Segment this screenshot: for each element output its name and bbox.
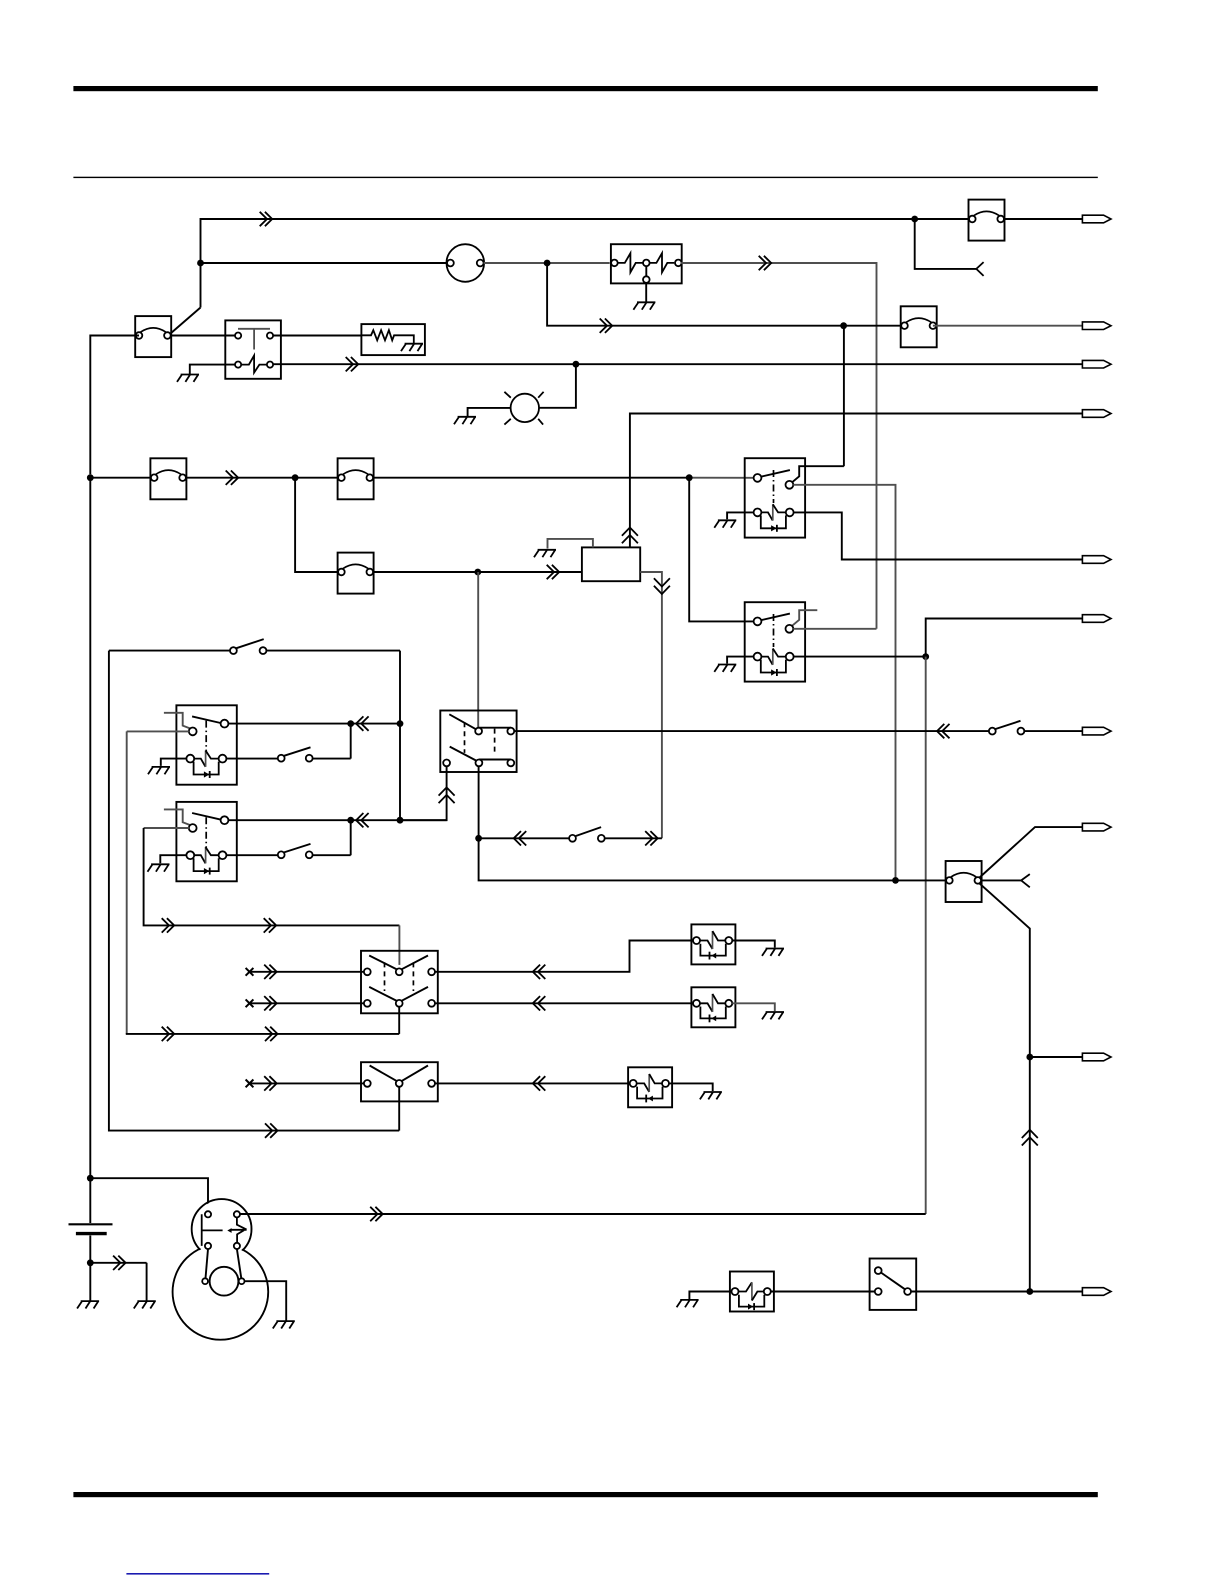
diagonal wire from fuse F1 to feed vertical bbox=[168, 308, 200, 336]
relay K2 dash-dot axis bbox=[773, 614, 775, 647]
wire: fuse F1 into circuit breaker CB1 bbox=[171, 335, 235, 337]
wire: SOL3 to ground bbox=[669, 1083, 713, 1091]
wire: loop inner vertical 1 (to light switch low beam) bbox=[126, 731, 128, 1034]
relay K1 contact circles bbox=[754, 474, 762, 482]
light switch S6 box bbox=[361, 951, 438, 1014]
terminal T5 bbox=[1082, 556, 1111, 564]
arrow on row1 out bbox=[533, 965, 546, 979]
arrow on CB1 output bbox=[346, 357, 359, 371]
indicator lamp L1 bbox=[504, 392, 543, 425]
circuit breaker CB1 bbox=[225, 320, 281, 378]
wire: head-beam drop into light switch bbox=[398, 925, 400, 965]
wire: light switch row2 out to solenoid SOL2 bbox=[435, 1002, 693, 1004]
arrow on PTO switch return bbox=[265, 1123, 278, 1137]
wire: left feed into fuse F1 bbox=[90, 336, 139, 475]
ground at frame bbox=[134, 1301, 156, 1308]
junction node lighting column ties ignition feed bbox=[892, 877, 899, 884]
relay K3 dash-dot axis bbox=[205, 721, 207, 751]
switch S4 bbox=[989, 721, 1024, 735]
solenoid SOL1 with diode bbox=[691, 924, 735, 964]
junction node T6 branch bbox=[922, 653, 929, 660]
ground at lamp bbox=[454, 417, 476, 424]
arrow on relay K3 out bbox=[356, 716, 369, 730]
wire: interlock ground lead bbox=[689, 1292, 731, 1300]
wire: CB1 to resistor block R2 bbox=[273, 335, 361, 337]
relay K3 hook contact with stub bbox=[164, 713, 190, 729]
seat switch contact circles bbox=[875, 1267, 882, 1274]
relay K3 coil with diode bbox=[186, 751, 226, 779]
fuse F6 bbox=[901, 306, 937, 347]
seat switch S8 box bbox=[870, 1259, 917, 1310]
relay K2 blade bbox=[761, 614, 790, 621]
wire: S1 drop to turn/hazard rows bbox=[399, 651, 401, 821]
resistor block R2 (resistor with ground) bbox=[361, 324, 425, 355]
junction node terminal T9 branch bbox=[1026, 1054, 1033, 1061]
ground at SOL3 bbox=[700, 1092, 722, 1099]
junction node relay K3 row bbox=[397, 720, 404, 727]
relay K4 contact circles bbox=[189, 824, 197, 832]
bottom thick rule bbox=[73, 1492, 1097, 1497]
x mark row 2 bbox=[246, 999, 254, 1007]
arrow on solenoid output bbox=[370, 1207, 383, 1221]
junction node turn-signal branch bbox=[474, 569, 481, 576]
wire: horn feed branch bbox=[201, 262, 447, 264]
wire: SOL1 to ground bbox=[732, 941, 775, 948]
light switch contact circles bbox=[364, 968, 371, 975]
wire: relay K2 switched to headlight feed bbox=[793, 628, 876, 630]
ground at relay K2 bbox=[714, 665, 736, 672]
wire: battery negative bbox=[89, 1236, 91, 1301]
junction node switch S2 branch bbox=[347, 720, 354, 727]
ground at relay K1 bbox=[714, 520, 736, 527]
junction node left main bbox=[87, 474, 94, 481]
wire: relay K4 input from loop bbox=[144, 827, 189, 829]
wire: lamp to ground bbox=[468, 408, 511, 417]
relay K1 blade bbox=[761, 470, 790, 477]
terminal T3 bbox=[1082, 360, 1111, 368]
wire: T6 column down to starter wire bbox=[925, 657, 927, 1214]
arrow on ground stub bbox=[113, 1256, 126, 1270]
horn B1 bbox=[447, 244, 485, 282]
switch S2 (momentary, relay K3 coil) bbox=[226, 724, 350, 759]
fuse F4 bbox=[338, 553, 374, 594]
top thick rule bbox=[73, 86, 1097, 91]
relay K4 dash-dot axis bbox=[205, 817, 207, 847]
ground below R1 bbox=[633, 302, 655, 309]
relay K2 hook contact with stub bbox=[792, 610, 817, 626]
wire: relay K2 coil to ground bbox=[727, 657, 754, 664]
wire: flasher case to ground bbox=[548, 539, 593, 549]
junction node relay K1 coil branch bbox=[840, 322, 847, 329]
x mark PTO bbox=[246, 1080, 254, 1088]
terminal T9 bbox=[1082, 1053, 1111, 1061]
turn switch dashed guides bbox=[464, 722, 466, 753]
solenoid SOL3 with diode bbox=[628, 1067, 672, 1107]
wire: main fuse row y=477.7 bbox=[90, 477, 689, 479]
wire: branch down to indicator lamp bbox=[539, 364, 576, 408]
arrow on T7 wire bbox=[937, 724, 950, 738]
wire: SOL4 to seat switch bbox=[771, 1291, 875, 1293]
ground at CB1 bbox=[177, 375, 199, 382]
battery BAT1 bbox=[69, 1224, 113, 1233]
junction node battery ground branch bbox=[87, 1259, 94, 1266]
wire: fuse row gray tail into relay K1 bbox=[689, 477, 753, 479]
turn signal switch U1 box bbox=[440, 711, 516, 773]
ground at interlock bbox=[677, 1300, 699, 1307]
arrow down on flasher right wire bbox=[654, 578, 670, 594]
fuse F5 bbox=[969, 200, 1005, 241]
terminal T10 bbox=[1082, 1288, 1111, 1296]
wire: armature to ground bbox=[245, 1281, 287, 1321]
wire: turn switch out to terminal T7 via switch S4 bbox=[514, 730, 1082, 732]
ground inside R2 bbox=[401, 344, 423, 351]
junction node relay K4 row bbox=[397, 817, 404, 824]
junction node hazard row branch bbox=[475, 835, 482, 842]
wire: battery ground stub to frame bbox=[90, 1263, 146, 1301]
bottom blue link underline bbox=[126, 1573, 269, 1575]
ground at battery bbox=[77, 1301, 99, 1308]
junction node horn branch bbox=[197, 260, 204, 267]
arrow on flasher feed bbox=[547, 565, 560, 579]
relay K3 box bbox=[176, 705, 236, 784]
wire: F7 diagonal up to terminal T8 bbox=[979, 827, 1082, 878]
wire: flasher junction down into turn switch common bbox=[477, 572, 479, 728]
wire: junction down to accessory row bbox=[547, 263, 900, 326]
junction node switch S3 branch bbox=[347, 817, 354, 824]
wire: R1 center tap to ground bbox=[645, 284, 647, 302]
wire: hazard row to flasher column bbox=[479, 837, 662, 839]
turn switch contact links bbox=[479, 727, 511, 729]
relay K4 blade bbox=[192, 813, 221, 820]
wire: main vertical to battery bbox=[89, 481, 91, 1223]
wire: fuse F6 to terminal T2 bbox=[933, 325, 1083, 327]
open connector (unmated) bbox=[976, 262, 983, 276]
wire: branch to terminal T9 bbox=[1030, 1056, 1083, 1058]
open connector at F7 bbox=[1021, 874, 1030, 887]
flasher unit FL1 bbox=[582, 547, 640, 581]
ground at relay K4 bbox=[148, 864, 170, 871]
wire: fuse-row branch down into relay K2 bbox=[689, 478, 753, 622]
arrow on top wire bbox=[260, 212, 273, 226]
arrow up on accessory column bbox=[1022, 1130, 1038, 1146]
wire: flasher right to hazard row bbox=[640, 572, 662, 838]
arrows on head-beam return bbox=[162, 918, 175, 932]
arrow on row2 out bbox=[533, 996, 546, 1010]
wire: turn switch center pole down to ignition feed row bbox=[479, 766, 946, 880]
arrows on low-beam return bbox=[162, 1027, 175, 1041]
relay K2 coil with diode bbox=[754, 649, 794, 677]
wire: relay K4 out row bbox=[228, 819, 446, 821]
fuse F7 (ignition feed) bbox=[946, 861, 982, 902]
arrow up on flasher-T4 wire bbox=[622, 528, 638, 544]
junction node accessory column ties T10 bbox=[1026, 1288, 1033, 1295]
junction node branch to fuse F3 bbox=[292, 474, 299, 481]
arrow row 1 bbox=[264, 965, 277, 979]
wire: stub to open connector below T1 bbox=[915, 219, 977, 269]
terminal T2 bbox=[1082, 322, 1111, 330]
switch S5 (hazard) bbox=[569, 827, 605, 842]
wire: branch down to fuse F4 row bbox=[295, 478, 337, 572]
terminal T7 bbox=[1082, 727, 1111, 735]
wire: loop inner vertical 2 (to light switch head) bbox=[144, 828, 400, 925]
arrow row 2 bbox=[264, 996, 277, 1010]
ground at flasher bbox=[534, 550, 556, 557]
relay K4 box bbox=[176, 802, 236, 881]
terminal T1 bbox=[1082, 215, 1111, 223]
relay K1 coil with diode bbox=[754, 504, 794, 532]
arrow on accessory row bbox=[600, 319, 613, 333]
wire: open lead into PTO switch bbox=[251, 1082, 364, 1084]
wire: relay K1 coil out to terminal T5 bbox=[794, 512, 1083, 559]
top thin rule bbox=[73, 177, 1097, 178]
wire: horn to resistor block R1 bbox=[484, 262, 610, 264]
x mark row 1 bbox=[246, 968, 254, 976]
arrow on R1 out wire bbox=[759, 256, 772, 270]
fuse F3 bbox=[338, 458, 374, 499]
wire: fuse F4 to flasher unit bbox=[374, 571, 582, 573]
wire: SOL2 to ground bbox=[732, 1003, 775, 1011]
fuse F2 bbox=[150, 458, 186, 499]
resistor block R1 (dual resistor with ground) bbox=[611, 244, 682, 283]
wire: relay K3 out to junction bbox=[228, 723, 400, 725]
seat switch blade bbox=[881, 1272, 905, 1289]
light switch V-blades row 2 bbox=[369, 987, 397, 1001]
relay K3 contact circles bbox=[189, 728, 197, 736]
light switch dashed guides bbox=[384, 962, 386, 991]
turn switch blades bbox=[449, 714, 476, 729]
starter armature bbox=[202, 1249, 244, 1296]
wire: light switch row1 out to solenoid SOL1 bbox=[435, 941, 693, 972]
wire: relay K2 coil out to terminal T6 bbox=[794, 619, 1083, 657]
fuse F1 bbox=[135, 316, 171, 357]
wire: CB1 output long row to terminal T3 bbox=[273, 363, 1082, 365]
terminal T8 bbox=[1082, 823, 1111, 831]
arrow PTO in bbox=[264, 1076, 277, 1090]
wire: turn switch left pole down to relay K4 row with up-arrow bbox=[400, 766, 447, 820]
solenoid SOL2 with diode bbox=[691, 987, 735, 1027]
wire: loop outer vertical bbox=[109, 651, 399, 1131]
wire: F7 stub to open connector bbox=[982, 879, 1022, 881]
wire: battery positive to starter solenoid bbox=[90, 1178, 208, 1211]
PTO switch contact circles bbox=[364, 1080, 371, 1087]
PTO switch V-blades bbox=[370, 1066, 397, 1082]
arrow on PTO out bbox=[533, 1076, 546, 1090]
wire: relay K1 coil to ground bbox=[727, 512, 754, 519]
junction node at fuse F5 branch bbox=[911, 216, 918, 223]
arrow on fuse row bbox=[226, 471, 239, 485]
ground at starter bbox=[273, 1321, 295, 1328]
terminal T6 bbox=[1082, 615, 1111, 623]
wire: PTO switch common down to loop bbox=[398, 1087, 400, 1131]
relay K2 box bbox=[745, 602, 805, 681]
starter motor M1 housing bbox=[173, 1199, 269, 1340]
wire: relay K1 switched out to lighting column bbox=[793, 485, 895, 877]
wire: relay K4 coil to ground bbox=[160, 855, 186, 863]
turn switch contact circles bbox=[475, 728, 482, 735]
wire: top feed from vertical to fuse F5 and terminal T1 bbox=[201, 219, 1083, 308]
arrow up on left pole drop bbox=[439, 787, 455, 803]
switch S3 (momentary, relay K4 coil) bbox=[226, 820, 350, 855]
wire: open lead into light switch row 1 bbox=[251, 971, 364, 973]
junction node starter solenoid feed bbox=[87, 1175, 94, 1182]
relay K3 blade bbox=[192, 716, 221, 723]
junction node branch to relay K2 bbox=[686, 474, 693, 481]
PTO switch S7 box bbox=[361, 1062, 438, 1101]
wire: relay K3 coil to ground bbox=[161, 759, 187, 766]
arrow on hazard row (right) bbox=[645, 831, 658, 845]
solenoid SOL4 (interlock coil) with diode bbox=[730, 1272, 774, 1312]
wire: low beam row to light switch bbox=[126, 1033, 399, 1035]
relay K1 hook contact and wire to coil feed bbox=[792, 326, 844, 483]
wire: open lead into light switch row 2 bbox=[251, 1002, 364, 1004]
arrow on relay K4 out bbox=[356, 813, 369, 827]
relay K1 box bbox=[745, 458, 805, 537]
starter solenoid contacts bbox=[202, 1211, 247, 1249]
wire: R1 out to headlight vertical bbox=[681, 263, 876, 629]
wire: seat switch out to terminal T10 bbox=[911, 1291, 1082, 1293]
wire: solenoid switched output to key circuit bbox=[240, 1213, 926, 1215]
ground at SOL2 bbox=[762, 1012, 784, 1019]
terminal T4 bbox=[1082, 410, 1111, 418]
relay K4 hook contact with stub bbox=[164, 809, 190, 825]
relay K1 dash-dot axis bbox=[773, 470, 775, 503]
wire: light switch common down to loop bbox=[398, 1007, 400, 1034]
arrow on hazard row (left) bbox=[514, 831, 527, 845]
junction node lamp branch bbox=[573, 361, 580, 368]
relay K2 contact circles bbox=[754, 618, 762, 626]
junction node resistor branch bbox=[544, 260, 551, 267]
wire: CB1 lower-left to ground bbox=[190, 365, 235, 375]
light switch V-blades row 1 bbox=[369, 956, 397, 970]
ground at SOL1 bbox=[762, 949, 784, 956]
wire: flasher top to terminal T4 bbox=[630, 414, 1083, 548]
wire: PTO switch out to solenoid SOL3 bbox=[435, 1082, 630, 1084]
wire: relay K3 input from loop bbox=[127, 730, 189, 732]
relay K4 coil with diode bbox=[186, 847, 226, 875]
ground at relay K3 bbox=[148, 767, 170, 774]
wire: F7 diagonal down the accessory column bbox=[979, 883, 1030, 1292]
switch S1 (key switch feed, top of loop) bbox=[109, 650, 400, 652]
